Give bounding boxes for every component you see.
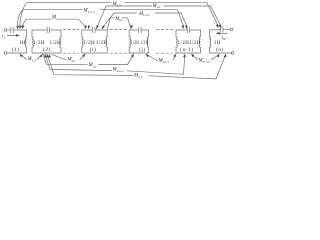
- svg-text:(1): (1): [12, 46, 20, 53]
- wire: loop i bottom rail: [82, 52, 107, 54]
- arrowheads loop n-1 top: [181, 25, 183, 29]
- coupling M2n bottom bridge: [47, 54, 133, 76]
- wire: dashed continuation loops i..j top: [110, 29, 127, 31]
- svg-text:Mi,n-1: Mi,n-1: [138, 12, 150, 18]
- wire: loop j top rail: [129, 29, 138, 31]
- coupling Mn-1n bottom arc: [192, 54, 199, 59]
- svg-text:M1,i: M1,i: [51, 16, 60, 22]
- coupling M1n-1 top bridge: [17, 10, 83, 28]
- coupling M1i top bridge: [22, 19, 52, 27]
- wire: dashed continuation loops j..n-1 top: [157, 29, 173, 31]
- wire: loop 2 bottom rail: [32, 52, 61, 54]
- svg-text:M1,n-1: M1,n-1: [83, 9, 96, 15]
- arrowheads loop n top: [216, 24, 219, 28]
- arrowhead iN: [216, 32, 220, 35]
- arrowhead i1: [16, 34, 20, 37]
- inductor: loop n-1 right half 1/2H: [199, 30, 200, 53]
- coupling M2j bottom bridge: [43, 54, 88, 65]
- wire: loop j top rail right: [141, 29, 148, 31]
- svg-text:M1,n: M1,n: [112, 2, 122, 8]
- coupling M2n-1 bottom bridge: [45, 54, 112, 71]
- arrowheads loop n-1 bottom: [173, 53, 176, 57]
- inductor: loop j left half 1/2H: [129, 30, 130, 53]
- inductor: loop n-1 left half 1/2H: [176, 30, 177, 53]
- svg-text:1/2H: 1/2H: [83, 40, 95, 46]
- wire: dashed continuation loops i..j bottom: [110, 52, 127, 54]
- wire: loop i top rail: [82, 29, 93, 31]
- wire: loop 2 top rail: [32, 29, 47, 31]
- svg-text:1H: 1H: [19, 40, 26, 46]
- inductor: loop j right half 1/2H: [147, 30, 148, 53]
- wire: dashed continuation loops 2..i bottom: [64, 52, 80, 54]
- svg-text:Mj,n-1: Mj,n-1: [158, 59, 170, 65]
- wire: loop n top rail: [210, 29, 221, 31]
- svg-text:(i): (i): [90, 46, 97, 53]
- inductor Ln 1H (left side of loop n): [210, 30, 211, 53]
- wire: loop i top rail right: [95, 29, 107, 31]
- svg-text:iN: iN: [222, 35, 227, 41]
- wire: loop n-1 top rail right: [190, 29, 201, 31]
- svg-text:M2,i: M2,i: [67, 58, 76, 64]
- svg-text:(j): (j): [139, 46, 146, 53]
- arrowheads loop2 bottom: [40, 54, 43, 58]
- capacitor Cn: [221, 27, 223, 33]
- coupling M2i bottom arc: [52, 54, 67, 60]
- svg-text:(n): (n): [216, 46, 224, 53]
- svg-text:1/2H: 1/2H: [33, 40, 45, 46]
- svg-text:M2,n-1: M2,n-1: [112, 68, 125, 74]
- svg-text:1/2H: 1/2H: [96, 40, 108, 46]
- arrowheads loop i top: [85, 25, 87, 29]
- capacitor C2: [47, 27, 49, 33]
- capacitor Cn-1: [187, 27, 189, 33]
- svg-text:Mi,j: Mi,j: [114, 17, 122, 23]
- wire: right port top: [223, 28, 230, 30]
- wire: dashed continuation loops 2..i top: [64, 29, 80, 31]
- svg-text:1/2H: 1/2H: [50, 40, 62, 46]
- svg-text:Mi,n: Mi,n: [152, 4, 161, 10]
- current arrow i1: [7, 34, 17, 36]
- wire: left port top: [7, 29, 11, 31]
- capacitor C1 (loop 1 series cap): [11, 27, 13, 33]
- wire: loop j bottom rail: [129, 52, 148, 54]
- arrowhead loop i bottom: [82, 53, 85, 57]
- svg-text:M2,n: M2,n: [133, 74, 143, 80]
- wire: dashed continuation loops j..n-1 bottom: [157, 52, 173, 54]
- svg-text:(2): (2): [43, 46, 51, 53]
- wire: loop n-1 bottom rail: [176, 52, 201, 54]
- node: right port bottom terminal: [231, 52, 234, 55]
- svg-text:1H: 1H: [214, 40, 221, 46]
- svg-text:M1,2: M1,2: [27, 57, 37, 63]
- arrowheads loop j bottom: [131, 53, 134, 57]
- svg-text:1/2H: 1/2H: [140, 40, 148, 46]
- coupling Min-1 top bridge: [102, 13, 137, 29]
- arrowheads loop n bottom: [217, 53, 220, 57]
- coupling M12 bottom arc: [20, 54, 27, 59]
- arrowhead loop1 bottom: [20, 53, 23, 57]
- node: right port top terminal: [230, 28, 233, 31]
- current arrow iN: [219, 32, 227, 34]
- capacitor Ci: [93, 27, 95, 33]
- arrowhead loop j top: [131, 25, 134, 29]
- svg-text:M2,j: M2,j: [88, 63, 97, 69]
- wire: loop n-1 top rail: [176, 29, 187, 31]
- inductor: loop2 left half 1/2H: [32, 30, 33, 53]
- wire: loop 1 bottom rail: [7, 52, 27, 54]
- inductor: loop i right half 1/2H: [106, 30, 107, 53]
- coupling Min top bridge: [97, 6, 152, 29]
- arrowheads: [16, 24, 226, 58]
- svg-text:1/2H: 1/2H: [178, 40, 190, 46]
- svg-text:1/2H: 1/2H: [189, 40, 201, 46]
- arrowheads loop1 top: [17, 25, 19, 29]
- wire: loop n bottom rail: [210, 52, 232, 54]
- coupling M1n top bridge: [20, 3, 112, 28]
- svg-text:Mn-1,n: Mn-1,n: [198, 59, 211, 65]
- node: left port bottom terminal: [4, 52, 7, 55]
- node: left port top terminal: [4, 29, 7, 32]
- wire: loop 2 top rail right: [50, 29, 61, 31]
- coupling Mij top bridge: [107, 18, 114, 30]
- inductor L1 1H (right side of loop 1): [25, 30, 26, 53]
- wire: loop 1 top rail: [14, 29, 27, 31]
- inductor: loop i left half 1/2H: [82, 30, 83, 53]
- svg-text:1/2H: 1/2H: [131, 40, 139, 46]
- coupling Mjn-1 bottom arc: [146, 54, 158, 60]
- inductor: loop2 right half 1/2H: [60, 30, 61, 53]
- svg-text:(n-1): (n-1): [180, 46, 193, 53]
- capacitor Cj: [139, 27, 141, 33]
- svg-text:i1: i1: [2, 34, 6, 40]
